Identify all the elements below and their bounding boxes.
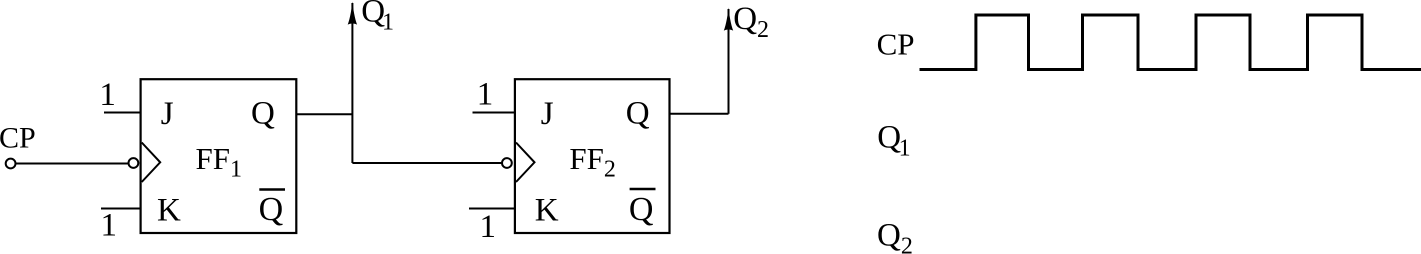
wire FF2 K input stub: [469, 208, 516, 210]
svg-text:Q: Q: [259, 191, 284, 228]
wire junction to FF2 clock: [352, 162, 502, 164]
wire FF2 J input stub: [473, 112, 516, 114]
svg-text:CP: CP: [877, 27, 915, 62]
FF2 clock inversion bubble: [502, 158, 512, 168]
FF1 clock inversion bubble: [129, 158, 139, 168]
svg-text:1: 1: [101, 208, 118, 244]
svg-text:Q: Q: [629, 191, 654, 228]
svg-text:1: 1: [480, 209, 497, 245]
wire Q2 vertical riser: [728, 9, 730, 114]
svg-text:CP: CP: [0, 122, 36, 155]
wire FF1 K input stub: [101, 208, 141, 210]
FF2 dynamic clock triangle: [516, 143, 535, 183]
Q1 arrowhead: [348, 2, 357, 25]
flip-flop FF2 body: [515, 79, 670, 233]
svg-text:J: J: [161, 96, 174, 132]
wire FF1 J input stub: [104, 112, 141, 114]
svg-text:J: J: [541, 96, 554, 132]
FF2 Q-bar overline: [630, 188, 656, 190]
FF1 Q-bar overline: [259, 188, 285, 190]
svg-text:Q: Q: [251, 96, 275, 132]
CP source terminal circle: [6, 159, 16, 169]
wire Q1 vertical riser: [351, 3, 353, 163]
svg-text:1: 1: [99, 77, 116, 113]
CP clock waveform: [920, 15, 1421, 70]
Q2 arrowhead: [724, 8, 733, 31]
svg-text:Q: Q: [626, 96, 650, 132]
wire CP to FF1 clock: [16, 163, 129, 165]
wire FF2 Q output: [669, 113, 728, 115]
wire FF1 Q output: [296, 113, 352, 115]
FF1 dynamic clock triangle: [142, 143, 161, 183]
svg-text:K: K: [157, 193, 181, 229]
svg-text:1: 1: [477, 77, 494, 113]
svg-text:K: K: [535, 193, 559, 229]
flip-flop FF1 body: [141, 79, 297, 233]
